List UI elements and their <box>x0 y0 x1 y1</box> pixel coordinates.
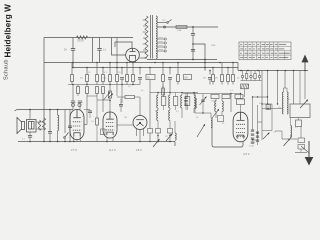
junction <box>29 109 31 111</box>
wire V1 to cap x90 <box>84 109 90 111</box>
svg-text:4,5 V: 4,5 V <box>243 152 251 156</box>
terminal circle A <box>241 75 243 77</box>
table text marks <box>240 45 290 58</box>
junction <box>116 62 118 64</box>
capacitor C2 <box>97 49 102 51</box>
wire x73 from second row <box>72 85 74 97</box>
wire x110 down <box>109 85 111 94</box>
transformer T1 secondary winding <box>156 16 157 59</box>
capacitor under bus x210 <box>209 71 211 75</box>
wire ladder v x272 <box>271 104 273 131</box>
resistor box with label <box>184 75 192 80</box>
wire rectifier to transformer upper <box>139 51 147 53</box>
osc coil lower <box>211 118 212 128</box>
junction <box>49 109 51 111</box>
bus B+ upper <box>44 62 238 64</box>
wire x282 v <box>281 131 283 139</box>
resistor second row x78 <box>77 87 80 94</box>
wire x150 feed <box>149 93 151 129</box>
tuning gang box <box>290 104 310 118</box>
rectifier tube U3 <box>126 48 140 62</box>
junctions on buses <box>72 62 306 72</box>
IF coil 4 <box>194 95 195 108</box>
wire diag to ground <box>301 146 309 153</box>
wire V1 top leads <box>72 96 74 101</box>
junction <box>202 112 204 114</box>
wire branch x92 <box>92 38 94 63</box>
wire row bottom link <box>241 80 262 82</box>
capacitor right of V1 <box>88 111 92 113</box>
loudspeaker cone <box>17 118 25 134</box>
tuner vertical x277 <box>277 71 279 105</box>
top-cap circles V1 <box>71 103 74 106</box>
svg-text:4,1 V: 4,1 V <box>109 148 117 152</box>
resistor above V2 <box>109 91 112 98</box>
svg-text:5N: 5N <box>215 78 218 80</box>
capacitor trimmer <box>201 100 205 101</box>
IF tuning box <box>161 97 165 106</box>
mixer tube V4 <box>233 112 248 142</box>
resistor under bus x87 <box>86 68 88 75</box>
diagonal mark <box>108 94 113 99</box>
junctions bottom bus <box>29 141 171 143</box>
transformer T1 core <box>150 15 152 59</box>
wire heater rail <box>147 59 217 61</box>
IF lower coil x158 <box>157 110 158 120</box>
svg-text:1M: 1M <box>103 78 106 80</box>
field winding on rail <box>42 118 45 130</box>
wire branch x65 <box>64 110 66 134</box>
wire branch x99 <box>99 38 101 49</box>
capacitor on x50 <box>48 132 52 134</box>
junction <box>57 109 59 111</box>
resistor under bus x228 <box>227 68 229 75</box>
oscillator coil small <box>175 133 176 140</box>
band filter coil A <box>282 92 283 114</box>
wire left vertical rail <box>43 38 45 142</box>
grid cap stack V4 <box>251 97 254 143</box>
wire rectifier cathode leads <box>129 59 131 63</box>
resistor second row x103 <box>102 87 105 94</box>
switch arrow lower <box>284 139 291 147</box>
capacitor under bus x170 <box>169 68 171 75</box>
tuner vertical x267 <box>267 71 269 109</box>
junction <box>157 135 159 137</box>
wire V1 grid right <box>84 124 87 126</box>
wire box feed <box>300 127 302 139</box>
iron-core choke hatched <box>241 84 249 89</box>
wire into V4 left <box>230 94 232 113</box>
junction <box>261 103 262 104</box>
IF lower coil x170 <box>169 110 170 120</box>
wire osc mid rail <box>195 112 211 114</box>
svg-text:Dr: Dr <box>155 111 157 113</box>
output transformer box <box>27 120 37 133</box>
svg-text:Schaub: Schaub <box>4 59 10 80</box>
capacitor pair above V1 <box>71 101 82 103</box>
switch S3 <box>153 139 160 147</box>
transformer primary taps <box>143 20 147 50</box>
svg-text:10000: 10000 <box>77 40 84 43</box>
wire V3 top <box>139 97 141 116</box>
wire mains down <box>192 35 194 59</box>
junction at branch <box>192 43 194 45</box>
capacitor under bus x122 <box>121 68 123 75</box>
resistor under bus x233 <box>232 63 234 75</box>
svg-text:Dr: Dr <box>148 76 151 79</box>
trimmer arrow V2 <box>104 92 111 100</box>
wire V2 anode <box>109 98 111 112</box>
junction small <box>257 132 258 133</box>
capacitor stack osc <box>184 94 188 111</box>
tuner vertical x293 <box>293 71 295 105</box>
wire h139 <box>282 138 297 140</box>
band filter coil B <box>287 92 288 114</box>
wire V3 leads <box>136 129 138 136</box>
osc coil pair <box>215 99 224 119</box>
resistor boxes osc row <box>211 95 219 99</box>
field coil choke <box>58 115 59 131</box>
resistor B <box>254 74 256 79</box>
wire ladder y130.5 <box>262 130 272 132</box>
resistor second row x97 <box>96 87 99 94</box>
resistor under bus x97 <box>96 63 98 75</box>
tube data table <box>239 42 291 60</box>
wire V1 cathode leads <box>73 136 75 141</box>
resistor under bus x213 <box>212 68 214 75</box>
wire x117-x122 down <box>116 85 118 97</box>
secondary taps with terminals <box>157 37 166 52</box>
wire branch right <box>193 44 205 71</box>
osc coil <box>195 98 196 108</box>
bus right section <box>238 70 308 72</box>
switch diag lower left <box>263 133 270 140</box>
wire speaker top link <box>29 110 31 120</box>
wire mains tap upper <box>157 22 166 24</box>
IF transformer coil <box>169 95 170 108</box>
capacitor C1 <box>71 49 76 51</box>
wire mixer loop <box>212 127 243 147</box>
resistor under bus x178 <box>177 63 179 75</box>
indicator tube V3 <box>133 116 147 130</box>
svg-text:1M: 1M <box>124 117 127 119</box>
junction <box>192 26 194 28</box>
wire transformer to rail lower <box>36 128 44 130</box>
resistor under bus x133 <box>132 63 134 75</box>
wire x170 cap to rail <box>169 85 171 93</box>
resistor second x163 <box>162 88 165 95</box>
bus B+ lower <box>73 67 238 69</box>
wire rectifier top link <box>115 42 132 49</box>
junction heater <box>192 59 194 61</box>
svg-text:4N: 4N <box>203 78 206 80</box>
scattered component labels <box>82 72 299 138</box>
terminal circle B <box>250 75 252 77</box>
wire IF rail feed <box>162 85 164 93</box>
band switch arm <box>300 100 308 109</box>
junction <box>267 108 268 109</box>
box above V4 <box>237 99 245 105</box>
driver tube V2 <box>103 112 117 138</box>
svg-text:5N: 5N <box>80 78 83 80</box>
wire h-link y140b <box>253 139 258 141</box>
wire h152 <box>295 152 307 154</box>
resistor R1 <box>77 36 88 39</box>
wire V2 grid <box>117 124 133 126</box>
tuner vertical x262 <box>261 71 263 141</box>
wire x170 down <box>169 120 171 128</box>
wire ladder y104 <box>262 103 272 105</box>
svg-text:+Ca: +Ca <box>211 45 216 47</box>
antenna symbol <box>302 56 308 71</box>
box on x158 <box>156 129 161 134</box>
resistor under bus x163 <box>162 63 164 75</box>
wire V2 leads <box>106 138 108 142</box>
wire rectifier to transformer lower <box>139 57 147 59</box>
box under V2 cathode <box>101 129 106 135</box>
capacitor under transformer <box>29 132 31 135</box>
wire coil B bottom <box>290 136 292 140</box>
junction <box>252 96 253 97</box>
resistor horizontal above V2 <box>125 96 135 99</box>
junction <box>169 135 171 137</box>
wire right of V4 <box>257 105 259 145</box>
wire h-link y97 <box>253 96 268 98</box>
terminal circle C <box>258 75 260 77</box>
resistor under bus x110 <box>109 63 111 75</box>
wire osc top rail <box>183 93 241 95</box>
output tube V1 <box>70 110 84 140</box>
svg-text:5N: 5N <box>64 50 67 52</box>
resistor under bus x222 <box>221 63 223 75</box>
wire osc to loop <box>211 118 213 127</box>
wire grid branch x73 <box>72 38 74 49</box>
choke Dr box <box>146 75 155 80</box>
IF tuning box <box>173 97 177 106</box>
junction <box>230 93 231 94</box>
wire branch x50 <box>49 110 51 132</box>
stacked boxes right <box>298 138 305 143</box>
switch S1 mains <box>168 20 172 23</box>
bus end jog <box>174 142 176 147</box>
switch S4 <box>166 134 173 142</box>
capacitor coupling <box>119 105 123 107</box>
svg-text:Heidelberg W: Heidelberg W <box>4 4 13 58</box>
svg-text:10000: 10000 <box>211 101 217 103</box>
IF tuning box <box>185 97 189 106</box>
coil lower right <box>291 126 292 138</box>
bus jog <box>237 63 239 71</box>
wire speaker feed <box>15 110 74 112</box>
svg-text:50: 50 <box>253 142 255 144</box>
svg-text:5N: 5N <box>185 77 188 79</box>
wire down from choke <box>244 89 246 97</box>
chassis bus bottom <box>18 141 175 143</box>
box on x150 <box>148 129 153 134</box>
resistor A <box>245 74 247 79</box>
wire top-left horizontal <box>44 37 133 39</box>
terminal circle <box>163 26 165 28</box>
junction <box>72 84 74 86</box>
wire rectifier left link <box>112 38 127 56</box>
IF transformer coil <box>181 95 182 108</box>
wire mains line <box>157 26 218 28</box>
capacitor x70 <box>68 126 72 128</box>
tuning arrow osc <box>197 124 205 137</box>
resistor under bus x72 <box>71 63 73 75</box>
svg-text:0,8A: 0,8A <box>177 29 182 32</box>
wire branch x117 down <box>116 38 118 68</box>
junction <box>109 100 111 102</box>
earth ground arrow <box>305 141 312 165</box>
wire second row link <box>97 99 110 101</box>
wire IF rail <box>150 92 198 94</box>
capacitor C4 <box>191 50 195 52</box>
capacitor under bus x140 <box>139 68 141 75</box>
output transformer secondary winding <box>38 120 40 130</box>
resistor right of V1 <box>96 118 99 125</box>
box ladder <box>266 105 271 110</box>
padder box <box>218 116 224 122</box>
resistor under bus x117 <box>116 68 118 75</box>
IF transformer coil <box>157 95 158 108</box>
resistor under bus x103 <box>102 68 104 75</box>
junction IF rail <box>157 92 159 94</box>
capacitor marks right of V4 <box>256 132 259 141</box>
wire x158 down <box>157 120 159 128</box>
resistor second row x87 <box>86 87 89 94</box>
wire coil top feed <box>283 88 285 92</box>
wire transformer to rail upper <box>36 121 44 123</box>
trimmer arrow osc <box>212 109 219 118</box>
wire branch x70 <box>69 110 71 126</box>
resistor under bus x127 <box>126 63 128 75</box>
small box right <box>296 120 302 127</box>
capacitor C3 mains <box>192 27 194 33</box>
wire ladder y108.5 <box>262 108 282 110</box>
junction <box>149 141 151 143</box>
wire x182 down <box>181 110 183 118</box>
wire h y96 left <box>87 95 97 97</box>
wire h-link y122 <box>258 121 263 123</box>
tuner vertical x305 <box>304 71 306 100</box>
transformer T1 primary winding <box>145 16 148 58</box>
wire V1 center lead <box>76 140 78 142</box>
box on x170 <box>168 129 173 134</box>
wire second row left <box>68 84 140 86</box>
svg-text:0,1M: 0,1M <box>249 146 254 148</box>
tuner vertical x300 <box>299 71 301 105</box>
switch S2 <box>65 133 69 138</box>
fuse F1 <box>176 26 187 29</box>
